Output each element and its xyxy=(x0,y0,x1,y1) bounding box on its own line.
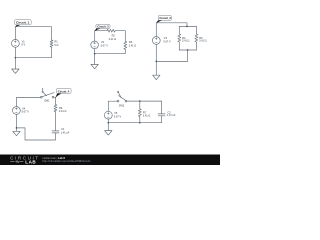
wire below V4 xyxy=(16,114,18,131)
wire to right c2 xyxy=(115,31,125,42)
node junction c4 xyxy=(16,127,18,129)
node junction c2 xyxy=(94,53,96,55)
wire top c1 xyxy=(15,27,51,40)
wire bottom c1 xyxy=(15,47,51,69)
node junctions c3 xyxy=(186,26,188,28)
voltage source V1 xyxy=(12,40,20,48)
voltage source V2 xyxy=(91,41,99,49)
svg-text:3.41 Ω: 3.41 Ω xyxy=(129,44,137,47)
svg-text:5 V: 5 V xyxy=(21,44,25,47)
ground xyxy=(153,75,160,79)
svg-text:5 Ω: 5 Ω xyxy=(54,44,58,47)
wire top c4 xyxy=(17,97,41,106)
svg-text:Circuit_3: Circuit_3 xyxy=(159,16,171,20)
ground xyxy=(105,131,112,135)
resistor R7 xyxy=(138,109,141,117)
wire below V3 xyxy=(155,44,157,75)
wire below C1 xyxy=(17,128,56,140)
svg-text:3.41 Ω: 3.41 Ω xyxy=(109,38,117,41)
svg-text:5.67 V: 5.67 V xyxy=(114,115,122,118)
wire below V5 xyxy=(107,119,109,131)
svg-text:Circuit_4: Circuit_4 xyxy=(58,89,70,93)
wire top c2 xyxy=(95,31,107,41)
switch SW1 xyxy=(40,96,42,98)
branch R4 bottom wire xyxy=(178,42,180,50)
wire top c5 xyxy=(108,101,117,111)
resistor R4 xyxy=(178,34,181,42)
tag Circuit_3 tail xyxy=(156,20,163,23)
svg-text:SW1: SW1 xyxy=(44,100,50,103)
wire right c5 xyxy=(161,101,163,114)
wire below R7 xyxy=(139,117,141,123)
tag Circuit_3 xyxy=(158,16,171,21)
branch R4 top wire xyxy=(178,26,180,34)
tag Circuit_2 tail xyxy=(94,28,101,31)
wire R6 to C1 xyxy=(55,112,57,131)
capacitor C2 xyxy=(158,114,165,116)
ground xyxy=(12,69,19,73)
resistor R1 xyxy=(50,40,53,47)
svg-text:http://circuitlab.com/c/dsLef5: http://circuitlab.com/c/dsLef59fsfsm4x xyxy=(42,159,91,163)
switch SW2 xyxy=(117,100,119,102)
svg-text:0.41 Ω: 0.41 Ω xyxy=(59,110,67,113)
wire after switch c5 xyxy=(127,101,162,109)
svg-text:Circuit_1: Circuit_1 xyxy=(16,21,30,25)
wire top c3 xyxy=(156,23,196,37)
branch R5 top wire xyxy=(195,26,197,34)
resistor R5 xyxy=(195,34,198,42)
voltage source V3 xyxy=(152,37,160,45)
tag Circuit_4 xyxy=(56,88,71,93)
svg-text:Circuit_2: Circuit_2 xyxy=(97,25,109,29)
resistor R6 xyxy=(54,104,57,111)
tag Circuit_1 xyxy=(15,20,32,25)
svg-text:3.41 Ω: 3.41 Ω xyxy=(182,39,190,42)
svg-text:LAB: LAB xyxy=(25,159,36,164)
capacitor C1 xyxy=(52,131,59,133)
logo wire decoration xyxy=(10,161,23,163)
wire below C2 xyxy=(108,116,161,123)
svg-text:5.67 V: 5.67 V xyxy=(163,40,171,43)
wire after switch c4 xyxy=(54,97,56,104)
resistor R3 xyxy=(124,41,127,49)
branch R5 bottom wire xyxy=(195,42,197,50)
svg-text:5.67 V: 5.67 V xyxy=(101,44,109,47)
bottom bus c3 xyxy=(156,50,196,61)
node junction c1 xyxy=(15,57,17,59)
svg-text:1.41 μF: 1.41 μF xyxy=(61,131,70,134)
tag Circuit_1 tail xyxy=(15,25,21,27)
voltage source V5 xyxy=(104,111,112,119)
svg-text:SW2: SW2 xyxy=(119,104,125,107)
tag Circuit_2 xyxy=(96,24,110,28)
svg-text:3.41 Ω: 3.41 Ω xyxy=(199,39,207,42)
tag Circuit_4 tail xyxy=(55,93,61,97)
resistor R2 xyxy=(107,29,115,32)
svg-text:1.47 μF: 1.47 μF xyxy=(167,114,176,117)
ground xyxy=(91,64,98,68)
node junctions c5 xyxy=(107,122,109,124)
wire bottom c2 xyxy=(95,49,126,65)
voltage source V4 xyxy=(13,107,21,115)
svg-text:5.67 V: 5.67 V xyxy=(22,111,30,114)
ground xyxy=(13,131,20,135)
svg-text:3.41 Ω: 3.41 Ω xyxy=(143,115,151,118)
